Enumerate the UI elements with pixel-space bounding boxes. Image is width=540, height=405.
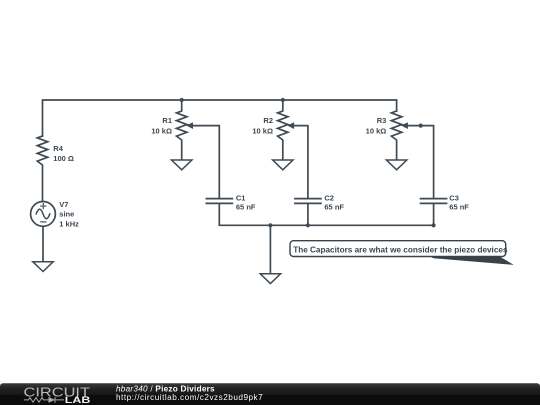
svg-text:65 nF: 65 nF <box>324 203 344 212</box>
svg-text:R1: R1 <box>162 116 172 125</box>
svg-text:10 kΩ: 10 kΩ <box>252 127 273 136</box>
svg-text:10 kΩ: 10 kΩ <box>151 127 172 136</box>
svg-text:R4: R4 <box>53 144 63 153</box>
svg-text:1 kHz: 1 kHz <box>59 220 79 229</box>
svg-text:65 nF: 65 nF <box>236 203 256 212</box>
svg-text:10 kΩ: 10 kΩ <box>366 127 387 136</box>
svg-text:100 Ω: 100 Ω <box>53 154 74 163</box>
svg-text:sine: sine <box>59 210 74 219</box>
svg-text:The Capacitors are what we con: The Capacitors are what we consider the … <box>293 246 508 255</box>
svg-text:V7: V7 <box>59 200 68 209</box>
svg-text:LAB: LAB <box>65 395 91 405</box>
svg-text:R3: R3 <box>377 116 387 125</box>
svg-text:http://circuitlab.com/c2vzs2bu: http://circuitlab.com/c2vzs2bud9pk7 <box>116 393 263 402</box>
svg-text:R2: R2 <box>263 116 273 125</box>
svg-text:C1: C1 <box>236 193 246 202</box>
svg-text:65 nF: 65 nF <box>449 203 469 212</box>
svg-text:C3: C3 <box>449 193 459 202</box>
svg-text:C2: C2 <box>324 193 334 202</box>
